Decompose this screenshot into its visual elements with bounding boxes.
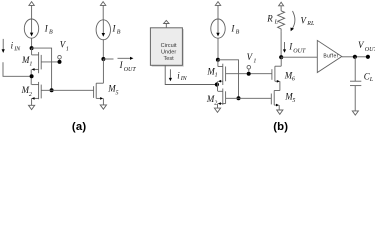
ground symbol under M5 xyxy=(100,105,106,109)
svg-text:L: L xyxy=(274,20,279,26)
op-amp buffer xyxy=(317,40,342,72)
svg-text:OUT: OUT xyxy=(124,67,137,73)
wire buffer output xyxy=(342,56,368,58)
ground symbol under M2 xyxy=(29,105,35,109)
svg-text:(a): (a) xyxy=(72,121,86,133)
label M1 xyxy=(21,55,32,67)
svg-text:1: 1 xyxy=(253,58,256,64)
label CL xyxy=(364,71,374,83)
label IOUT b xyxy=(288,41,306,54)
current arrow IOUT b xyxy=(283,42,286,53)
svg-text:L: L xyxy=(369,77,374,83)
wire M5 source to ground xyxy=(102,98,104,105)
label M6 xyxy=(284,70,295,82)
transistor M2 b xyxy=(218,89,226,105)
node A junction dot xyxy=(30,46,34,50)
ground symbol under CL xyxy=(352,111,358,115)
svg-text:OUT: OUT xyxy=(365,47,375,53)
node CL junction dot xyxy=(353,55,357,59)
wire node A to M1 drain lead xyxy=(31,48,33,55)
svg-text:1: 1 xyxy=(66,47,69,53)
svg-text:OUT: OUT xyxy=(293,49,306,55)
svg-text:Test: Test xyxy=(163,56,174,62)
wire node B to drain M1 b xyxy=(218,60,239,99)
wire IOUT node to M5 drain xyxy=(102,59,104,83)
current arrow iIN xyxy=(2,39,5,53)
box circuit under test xyxy=(150,28,183,67)
node IOUT dot xyxy=(101,57,105,61)
wire IB1 to node A xyxy=(31,38,33,48)
node B junction dot xyxy=(216,58,220,62)
node IOUT b dot xyxy=(279,55,283,59)
transistor M5 b xyxy=(271,91,280,107)
node VOUT dot xyxy=(366,55,370,59)
vdd symbol branch 2 xyxy=(100,2,105,20)
svg-text:Circuit: Circuit xyxy=(161,43,177,49)
transistor M5 xyxy=(94,83,104,100)
svg-text:Buffer: Buffer xyxy=(323,53,338,59)
svg-text:B: B xyxy=(117,29,121,35)
wire M1 b gate to V1 and M6 gate xyxy=(226,73,272,75)
ground symbol under M2 b xyxy=(214,108,220,112)
svg-text:B: B xyxy=(49,29,53,35)
wire M2 b gate / M5 b gate feed xyxy=(226,97,272,99)
terminal V1 xyxy=(58,55,62,60)
current source IB3 xyxy=(211,19,225,38)
wire M2 gate / M5 gate feed xyxy=(41,89,93,91)
wire RL to node IOUT b xyxy=(280,32,282,58)
label M1 b xyxy=(206,67,217,79)
vdd symbol above CUT box xyxy=(164,20,169,27)
label IOUT xyxy=(119,60,137,73)
node X b junction dot xyxy=(215,82,219,86)
svg-text:1: 1 xyxy=(215,72,218,78)
wire M6 drain to node IOUT b xyxy=(280,57,282,66)
wire M2 source to ground xyxy=(31,98,33,105)
label M2 xyxy=(21,85,32,98)
wire IOUT stub xyxy=(103,58,113,60)
wire M1 b source to node X b and M2 b drain xyxy=(217,81,219,91)
node V1 b dot xyxy=(247,72,251,76)
svg-text:B: B xyxy=(236,29,240,35)
ground symbol under M5 b xyxy=(277,110,283,114)
svg-text:Under: Under xyxy=(161,50,176,56)
wire M5 b source to ground xyxy=(278,105,280,110)
transistor M1 b xyxy=(218,64,226,85)
label IB1 xyxy=(44,23,53,35)
label VOUT xyxy=(358,40,375,53)
junction dot node A / M5 gate feed xyxy=(50,88,54,92)
label IB2 xyxy=(112,23,121,35)
wire M1 source to node X and M2 drain xyxy=(30,70,32,85)
wire node B to M1 b drain lead xyxy=(217,60,219,67)
label iIN xyxy=(11,41,22,53)
svg-text:R: R xyxy=(266,14,273,24)
resistor RL xyxy=(278,11,285,32)
annotation VRL arc arrow xyxy=(291,11,295,31)
label V1 b xyxy=(247,52,257,64)
label IB3 xyxy=(230,23,239,35)
wire iIN input xyxy=(3,62,32,76)
wire iIN from box to node X xyxy=(165,65,217,84)
wire node A to drain of M1 xyxy=(32,48,52,90)
svg-text:1: 1 xyxy=(29,61,32,67)
wire node IOUT b to buffer input xyxy=(281,56,317,58)
vdd symbol branch IB b xyxy=(215,2,220,19)
capacitor CL xyxy=(350,57,361,111)
wire IB3 to node B xyxy=(217,38,219,59)
vdd symbol above RL xyxy=(279,2,284,11)
transistor M6 xyxy=(272,66,281,82)
current source IB1 xyxy=(24,19,38,38)
terminal V1 b xyxy=(247,65,251,71)
label RL xyxy=(266,14,278,26)
svg-text:5: 5 xyxy=(116,90,119,96)
svg-text:(b): (b) xyxy=(273,121,288,133)
current source IB2 xyxy=(96,19,110,39)
transistor M2 xyxy=(31,82,41,100)
svg-text:IN: IN xyxy=(13,46,21,52)
svg-text:5: 5 xyxy=(292,98,295,104)
svg-text:6: 6 xyxy=(292,76,295,82)
label iIN b xyxy=(177,70,187,82)
node X junction dot xyxy=(30,74,34,78)
transistor M1 xyxy=(31,52,41,73)
wire M2 b source to ground xyxy=(217,104,219,109)
current arrow IOUT xyxy=(118,57,134,60)
wire M1 gate to V1 xyxy=(41,61,59,63)
svg-text:RL: RL xyxy=(306,21,315,27)
wire IB2 to node IOUT xyxy=(102,39,104,59)
label M5 xyxy=(107,84,118,97)
node V1 dot xyxy=(58,60,62,64)
label VRL xyxy=(301,16,315,28)
label M5 b xyxy=(284,92,295,104)
svg-text:IN: IN xyxy=(180,76,188,82)
label V1 xyxy=(60,40,69,53)
vdd symbol branch 1 xyxy=(29,2,34,19)
label M2 b xyxy=(206,94,217,106)
junction dot node B / gate feed xyxy=(237,96,241,100)
svg-text:2: 2 xyxy=(29,92,32,98)
wire M6 source to M5 drain xyxy=(279,81,281,90)
current arrow iIN b xyxy=(169,69,172,81)
svg-text:2: 2 xyxy=(214,100,217,106)
